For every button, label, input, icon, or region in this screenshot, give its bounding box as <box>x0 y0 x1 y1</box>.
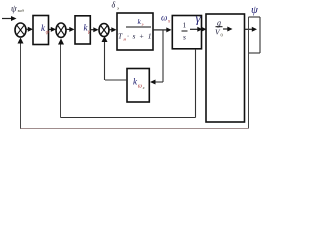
svg-text:ψ: ψ <box>251 4 258 16</box>
svg-text:э: э <box>142 22 144 27</box>
svg-text:s: s <box>183 33 186 42</box>
svg-text:δ: δ <box>112 1 116 10</box>
svg-text:э: э <box>117 6 119 11</box>
svg-text:ω: ω <box>138 84 142 90</box>
svg-text:м: м <box>122 37 126 42</box>
svg-text:1: 1 <box>183 21 187 30</box>
svg-text:ψ: ψ <box>46 30 50 36</box>
svg-text:ψ: ψ <box>11 4 17 14</box>
svg-text:ω: ω <box>161 13 167 23</box>
svg-text:зад: зад <box>17 8 25 13</box>
svg-text:x: x <box>142 85 145 90</box>
svg-text:g: g <box>217 19 221 28</box>
svg-text:γ: γ <box>196 11 202 26</box>
